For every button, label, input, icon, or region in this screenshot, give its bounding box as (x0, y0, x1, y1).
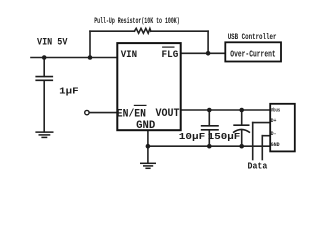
wire D+ vertical to Data (252, 123, 254, 160)
svg-text:GND: GND (136, 120, 156, 132)
svg-text:EN/EN: EN/EN (117, 108, 146, 120)
svg-text:D-: D- (271, 130, 277, 137)
wire 1uF bottom lead (43, 81, 45, 132)
svg-text:GND: GND (271, 141, 280, 148)
wire 1uF top lead (43, 58, 45, 77)
wire pull-up right leg (207, 31, 209, 53)
ground (IC GND) (140, 163, 156, 168)
wire FLG to over-current box (181, 52, 226, 54)
svg-text:1μF: 1μF (59, 86, 79, 97)
svg-text:VIN 5V: VIN 5V (37, 37, 67, 48)
wire pull-up top right segment (151, 30, 208, 32)
capacitor C1 1uF plates (35, 77, 53, 81)
wire EN input (90, 112, 117, 114)
EN overline (134, 104, 147, 106)
capacitor C3 150uF polarized plates (233, 125, 250, 132)
wire D+ horizontal (253, 122, 271, 124)
capacitor C2 10uF plates (201, 126, 219, 130)
node junction dot rail-GND pin (146, 144, 151, 149)
over-current comparator box (225, 42, 281, 61)
wire D- horizontal (262, 135, 270, 137)
wire 150uF bottom lead (over text) (241, 130, 243, 147)
wire D- vertical to Data (261, 136, 263, 160)
svg-text:Pull-Up Resistor(10K to 100K): Pull-Up Resistor(10K to 100K) (94, 16, 180, 26)
EN pin input circle terminal (85, 110, 89, 114)
svg-text:FLG: FLG (162, 50, 179, 61)
node junction dot VOUT-150uF (239, 108, 244, 113)
node junction dot rail-10uF (207, 144, 212, 149)
svg-text:VOUT: VOUT (156, 108, 180, 120)
svg-text:D+: D+ (271, 117, 277, 124)
svg-text:Data: Data (248, 162, 268, 172)
svg-text:VIN: VIN (121, 50, 137, 61)
node junction dot VOUT-10uF (207, 108, 212, 113)
svg-text:10μF: 10μF (179, 131, 206, 142)
node junction dot VIN-pullup (88, 55, 93, 60)
FLG overline (162, 46, 174, 48)
svg-text:Vbus: Vbus (271, 107, 281, 114)
wire 150uF top lead (241, 110, 243, 125)
wire VOUT to connector Vbus (181, 109, 271, 111)
node junction dot FLG-pullup (206, 51, 211, 56)
node junction dot rail-150uF (239, 144, 244, 149)
node junction dot VIN-cap (42, 55, 47, 60)
svg-text:150μF: 150μF (208, 131, 241, 142)
svg-text:USB Controller: USB Controller (228, 32, 277, 42)
wire IC GND pin down (147, 130, 149, 163)
wire 10uF top lead (208, 110, 210, 126)
wire pull-up left leg (89, 31, 91, 57)
resistor R1 pull-up zigzag (134, 28, 150, 33)
ground (1uF) (35, 132, 53, 137)
USB connector J1 body (270, 104, 295, 152)
wire ground rail (148, 145, 270, 147)
svg-text:Over-Current: Over-Current (230, 50, 275, 60)
wire 10uF bottom lead (over text) (208, 130, 210, 146)
wire VIN input (31, 57, 117, 59)
wire pull-up top left segment (90, 30, 134, 32)
op-amp U1 IC body (load switch) (117, 43, 180, 130)
